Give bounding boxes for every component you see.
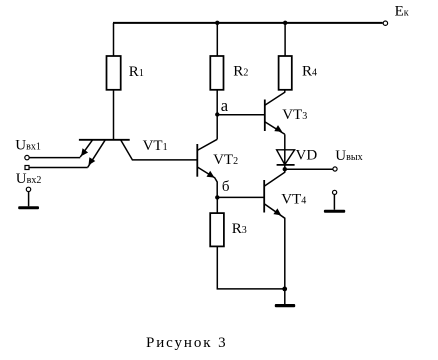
svg-text:R3: R3 [232, 221, 247, 237]
svg-text:Uвх1: Uвх1 [15, 137, 41, 153]
svg-text:VT1: VT1 [143, 138, 168, 154]
svg-text:Рисунок 3: Рисунок 3 [146, 335, 228, 351]
svg-text:R1: R1 [129, 64, 144, 80]
svg-text:Uвх2: Uвх2 [16, 171, 42, 187]
svg-text:VT2: VT2 [213, 152, 238, 168]
svg-text:VT3: VT3 [282, 107, 307, 123]
svg-text:a: a [221, 96, 229, 115]
svg-text:Ек: Ек [395, 3, 409, 19]
svg-text:Uвых: Uвых [335, 148, 362, 164]
svg-text:VT4: VT4 [281, 192, 306, 208]
svg-text:VD: VD [296, 148, 318, 164]
svg-text:R2: R2 [233, 64, 248, 80]
svg-text:R4: R4 [302, 64, 317, 80]
svg-text:б: б [222, 179, 230, 195]
